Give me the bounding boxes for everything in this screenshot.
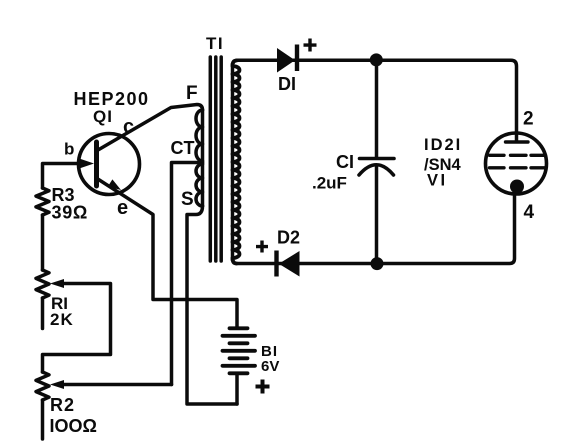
wire R1 bottom open stub <box>41 298 45 329</box>
svg-text:VI: VI <box>427 172 448 190</box>
svg-text:2: 2 <box>523 109 534 130</box>
wire collector lead to transformer F terminal <box>98 105 203 151</box>
plus sign at battery B1 <box>256 380 270 394</box>
transformer T1 primary lower winding (CT to S) <box>196 164 203 206</box>
transformer T1 core line 3 <box>219 57 223 261</box>
wire CT tap down to R2 wiper net <box>172 163 203 385</box>
svg-text:HEP200: HEP200 <box>74 89 150 109</box>
battery B1 plate short 1 (negative top) <box>230 326 248 330</box>
wire R2 wiper to CT net <box>61 383 172 387</box>
transformer T1 primary winding spine <box>201 110 205 206</box>
battery B1 bottom lead <box>235 373 239 404</box>
capacitor C1 bottom lead <box>375 167 379 264</box>
svg-text:DI: DI <box>278 74 296 94</box>
resistor R3 zigzag <box>36 188 49 215</box>
svg-text:b: b <box>64 140 74 159</box>
transformer T1 core line 1 <box>209 57 213 261</box>
diode D2 cathode bar <box>274 251 278 277</box>
svg-text:S: S <box>181 189 194 210</box>
svg-text:.2uF: .2uF <box>312 174 347 193</box>
svg-text:QI: QI <box>93 107 113 126</box>
transformer T1 core line 2 <box>214 57 218 261</box>
junction dot top rail <box>370 53 383 66</box>
svg-text:e: e <box>117 197 128 219</box>
diode D1 cathode bar <box>295 45 299 72</box>
tube V1 dashed grid row 1 <box>490 154 546 157</box>
svg-text:ID2I: ID2I <box>424 136 462 154</box>
wire bottom rail: secondary bottom through D2 to tube pin 4 <box>237 190 515 264</box>
svg-text:CT: CT <box>171 138 195 158</box>
wire S lead down to battery plus <box>187 206 237 404</box>
capacitor C1 top lead <box>375 60 379 156</box>
battery B1 plate short 2 <box>230 341 248 345</box>
svg-text:39Ω: 39Ω <box>52 203 89 223</box>
transformer T1 primary upper winding (F to CT) <box>196 110 203 161</box>
battery B1 plate long 3 <box>223 364 256 368</box>
tube V1 cathode dot electrode <box>510 180 524 194</box>
wire base lead from node to R3 column <box>43 164 85 189</box>
transistor Q1 base bar <box>94 142 99 186</box>
svg-text:2K: 2K <box>50 310 74 329</box>
capacitor C1 top plate <box>360 157 395 161</box>
svg-text:CI: CI <box>336 152 354 172</box>
transformer T1 secondary winding spine <box>231 64 235 260</box>
svg-text:c: c <box>123 116 134 138</box>
tube V1 dashed grid row 2 <box>490 166 546 169</box>
diode D1 triangle <box>277 48 295 73</box>
potentiometer R2 wiper arrow <box>50 380 64 389</box>
wire R1 wiper loop to R2 top <box>43 284 111 373</box>
transistor Q1 circle <box>79 134 140 195</box>
potentiometer R2 zigzag <box>36 372 49 400</box>
battery B1 plate short 3 <box>230 356 248 360</box>
svg-text:D2: D2 <box>277 228 300 248</box>
svg-text:4: 4 <box>524 202 535 223</box>
svg-text:IOOΩ: IOOΩ <box>50 416 97 436</box>
wire top rail: secondary top through D1 to tube pin 2 <box>237 60 517 141</box>
transistor Q1 base arrow <box>80 159 94 169</box>
svg-text:R2: R2 <box>50 395 75 415</box>
plus sign at D2 <box>256 241 268 253</box>
potentiometer R1 wiper arrow <box>50 279 64 288</box>
transistor Q1 emitter arrow <box>108 179 121 190</box>
capacitor C1 bottom curved plate <box>359 165 394 175</box>
tube V1 envelope circle <box>486 133 547 194</box>
tube V1 top electrode bar (pin 2) <box>506 140 529 143</box>
battery B1 plate short 4 (positive bottom) <box>230 371 248 375</box>
transformer T1 secondary winding <box>233 61 240 264</box>
svg-text:TI: TI <box>206 34 224 53</box>
junction dot bottom rail <box>371 257 384 270</box>
svg-text:6V: 6V <box>261 358 279 375</box>
wire emitter lead down and to battery minus <box>97 179 237 328</box>
wire R2 bottom lead <box>41 400 45 439</box>
potentiometer R1 zigzag <box>36 270 49 298</box>
wire R3 bottom to R1 top <box>41 215 45 270</box>
plus sign at D1 <box>304 39 317 52</box>
svg-text:F: F <box>186 83 198 104</box>
battery B1 plate long 2 <box>223 349 256 353</box>
diode D2 triangle <box>279 251 300 277</box>
battery B1 plate long 1 <box>223 334 256 338</box>
